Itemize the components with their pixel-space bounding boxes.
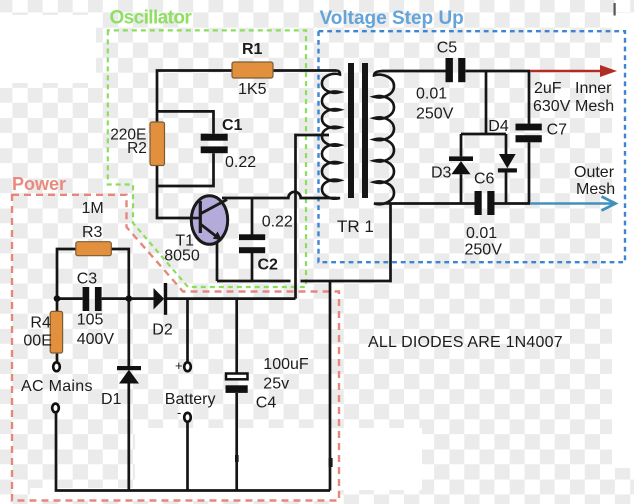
capacitor C4 electrolytic [226,374,248,393]
terminal battery plus [184,362,191,371]
junction node at D1 top [126,295,133,302]
diode D4 [498,154,517,173]
svg-text:+: + [175,358,183,373]
svg-text:Voltage Step Up: Voltage Step Up [320,8,464,29]
wire C6 to blue arrow junction [495,202,531,205]
arrow Inner Mesh (red) [530,65,617,77]
wire C7 branch [528,71,531,204]
svg-text:C2: C2 [258,257,279,274]
capacitor C2 [239,234,265,253]
terminal AC mains upper [53,362,60,371]
svg-text:C7: C7 [547,122,568,139]
svg-text:R2: R2 [127,140,147,157]
dashed box Power (pink) [12,195,339,501]
wire TR return down [329,281,332,491]
svg-text:D3: D3 [431,165,452,182]
wire diode feed from top [485,71,488,134]
wire R3 left loop [57,249,76,311]
wire power wire C3 left segment [57,297,83,300]
svg-text:630V: 630V [533,98,571,115]
white background patch bottom band [135,428,422,490]
wire transformer secondary top to C5 [382,70,446,73]
svg-text:1K5: 1K5 [238,81,267,98]
transformer TR1 core bars [348,63,354,198]
transistor T1 [191,196,228,245]
svg-text:8050: 8050 [164,248,200,265]
capacitor C1 [201,134,228,154]
terminal battery minus [184,413,191,422]
svg-text:Inner: Inner [575,80,612,97]
dashed box Voltage Step Up (blue) [319,31,626,262]
resistor R4 [50,311,62,353]
wire rail transformer bottom segment [301,204,391,281]
svg-text:0.22: 0.22 [262,214,293,231]
wire center tap vertical [296,135,330,299]
white background patch top-left [0,15,96,83]
svg-text:C6: C6 [474,171,495,188]
svg-text:Mesh: Mesh [575,98,614,115]
wire battery plus [186,299,189,363]
svg-text:D1: D1 [101,391,122,408]
wire diode bridge top [461,133,506,136]
svg-text:C3: C3 [77,271,98,288]
wire C1 top branch [157,111,214,133]
wire collector to transformer primary bottom (with hop) [222,192,336,198]
transformer TR1 secondary coil [374,71,394,204]
wire D3 branch [460,134,463,204]
svg-text:R1: R1 [242,41,263,58]
svg-text:105: 105 [77,312,104,329]
svg-text:100uF: 100uF [263,356,309,373]
wire D4 branch [505,134,508,204]
tick mark on C4 lower stem [235,455,239,462]
svg-text:250V: 250V [465,242,503,259]
svg-text:2uF: 2uF [534,80,562,97]
resistor R3 [76,242,112,256]
wire battery minus [186,421,189,491]
svg-text:Battery: Battery [165,391,216,408]
wire AC mains lower stem to bottom rail [56,412,330,491]
white background patch right column [612,13,634,468]
corner tick mark top-right [614,3,616,16]
junction node at R4 top [54,295,61,302]
svg-text:0.22: 0.22 [225,154,256,171]
svg-text:Power: Power [12,174,66,194]
capacitor C3 [83,287,102,311]
resistor R2 [150,122,165,166]
wire R3 right down [111,249,129,299]
wire bottom rail of step-up to C6 [391,202,475,205]
capacitor C7 [516,124,542,143]
capacitor C5 [446,58,466,82]
svg-text:ALL DIODES ARE 1N4007: ALL DIODES ARE 1N4007 [368,334,563,351]
dashed box Oscillator (green) [108,30,306,287]
wire emitter down [216,242,219,281]
wire power wire D2 to corner [167,297,296,300]
svg-text:D4: D4 [488,118,509,135]
svg-text:0.01: 0.01 [466,225,497,242]
svg-text:Oscillator: Oscillator [110,8,193,29]
wire R1 right to transformer primary top [273,69,336,72]
svg-text:25v: 25v [263,376,289,393]
resistor R1 [232,62,273,78]
svg-text:250V: 250V [416,106,454,123]
wire C4 bottom stem [235,393,238,491]
wire D1 branch upper [127,299,130,366]
svg-text:1M: 1M [82,200,104,217]
wire power wire C3 to D2 [102,297,154,300]
wire C4 top stem [235,299,238,373]
terminal AC mains lower [52,404,59,413]
wire C2 bottom stem [251,253,254,281]
wire emitter rail to crossing gap [217,280,291,283]
wire C2 top stem [251,198,254,235]
wire top rail oscillator: R1 left to left corner [157,71,232,123]
svg-text:Outer: Outer [574,164,615,181]
wire C1 bottom branch [158,153,214,186]
wire R4 bottom stem [56,353,59,363]
svg-text:AC Mains: AC Mains [21,378,93,395]
wire R2 bottom to base [157,166,192,218]
arrow Outer Mesh (blue) [530,197,616,211]
svg-text:400V: 400V [77,331,115,348]
diode D2 [154,283,168,315]
svg-text:C5: C5 [437,39,458,56]
svg-text:C4: C4 [256,395,277,412]
tick mark on TR return wire [329,458,333,467]
svg-text:0.01: 0.01 [416,86,447,103]
diode D1 [117,366,141,384]
svg-text:R4: R4 [30,315,51,332]
wire C5 to junction and on [466,70,531,73]
diode D3 [449,156,473,174]
wire D1 branch lower [127,384,130,491]
svg-text:R3: R3 [82,224,103,241]
svg-text:C1: C1 [222,117,243,134]
svg-text:Mesh: Mesh [576,181,615,198]
svg-text:D2: D2 [152,322,173,339]
svg-text:TR 1: TR 1 [337,217,374,236]
svg-text:00E: 00E [23,333,51,350]
transformer TR1 primary coil [322,71,340,199]
white background patch below bottom rail [30,488,338,501]
capacitor C6 [475,191,495,215]
